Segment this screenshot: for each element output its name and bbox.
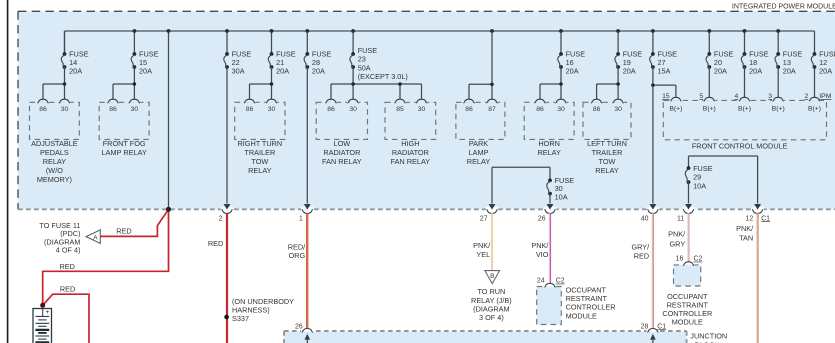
svg-text:12: 12 xyxy=(746,215,754,222)
svg-text:PEDALS: PEDALS xyxy=(40,148,69,157)
svg-text:RELAY: RELAY xyxy=(248,166,272,175)
svg-text:30: 30 xyxy=(614,106,622,113)
wire relay output bracket to pin 27 xyxy=(489,167,550,209)
junction block pin 26 xyxy=(295,323,314,343)
svg-text:15A: 15A xyxy=(658,66,671,75)
integrated power module box xyxy=(18,11,835,209)
svg-text:3: 3 xyxy=(768,93,772,100)
fuse 19 20A xyxy=(615,50,642,76)
svg-text:TRAILER: TRAILER xyxy=(244,148,275,157)
wire fuse 28 to IPM pin 1 xyxy=(304,67,311,210)
svg-text:FUSE: FUSE xyxy=(693,164,713,173)
svg-text:16: 16 xyxy=(676,256,684,263)
svg-text:RED: RED xyxy=(634,251,649,260)
bus junction dots xyxy=(133,29,781,33)
connector cups at IPM border xyxy=(221,210,763,214)
label RED pin2 xyxy=(208,239,223,248)
svg-text:ORG: ORG xyxy=(289,251,306,260)
svg-text:PNK/: PNK/ xyxy=(668,229,686,238)
svg-text:B(+): B(+) xyxy=(703,106,716,113)
fuse 15 20A xyxy=(131,50,158,76)
svg-text:29: 29 xyxy=(693,173,701,182)
label to run relay xyxy=(471,287,512,322)
label PNK/YEL xyxy=(473,241,491,259)
svg-text:30: 30 xyxy=(557,106,565,113)
arrows at border pins xyxy=(224,204,761,210)
svg-text:11: 11 xyxy=(677,215,684,222)
svg-text:30: 30 xyxy=(61,106,69,113)
svg-text:26: 26 xyxy=(295,323,303,330)
svg-text:10A: 10A xyxy=(555,192,568,201)
fuse 20 20A xyxy=(706,50,733,76)
svg-text:20A: 20A xyxy=(819,66,832,75)
svg-text:C1: C1 xyxy=(657,323,666,330)
label GRY/RED xyxy=(631,243,650,261)
svg-text:B(+): B(+) xyxy=(738,106,751,113)
svg-text:MODULE: MODULE xyxy=(566,311,597,320)
svg-text:MEMORY): MEMORY) xyxy=(37,175,72,184)
fuse 21 20A xyxy=(268,50,295,76)
svg-text:B(+): B(+) xyxy=(808,106,821,113)
svg-text:26: 26 xyxy=(538,215,546,222)
wire PNK/YEL pin 27 to connector B xyxy=(491,213,493,270)
svg-text:HORN: HORN xyxy=(538,139,560,148)
junction block pin 28 xyxy=(641,323,667,343)
svg-text:GRY: GRY xyxy=(670,239,686,248)
svg-text:TRAILER: TRAILER xyxy=(592,148,623,157)
svg-text:RED: RED xyxy=(208,239,223,248)
splice S337 xyxy=(224,297,294,323)
wire fuse 22 to IPM pin 2 xyxy=(224,67,231,210)
svg-text:HIGH: HIGH xyxy=(401,139,419,148)
fuse 22 30A xyxy=(224,50,251,76)
wire PNK/VIO pin 26 to ORC xyxy=(549,213,551,283)
svg-text:B(+): B(+) xyxy=(772,106,785,113)
svg-text:3 OF 4): 3 OF 4) xyxy=(479,313,504,322)
wires fuses 20 18 13 12 to FCM xyxy=(709,67,814,97)
wire FCM outputs bracket xyxy=(689,156,761,210)
fuse 29 10A xyxy=(685,164,712,191)
front control module xyxy=(662,93,832,150)
svg-text:INTEGRATED POWER MODULE: INTEGRATED POWER MODULE xyxy=(732,3,835,10)
relay K8 left turn trailer tow (fed by fuse 19) xyxy=(583,67,631,175)
svg-text:40: 40 xyxy=(641,215,649,222)
label RED to battery xyxy=(60,262,75,271)
svg-text:IPM: IPM xyxy=(819,93,831,100)
svg-text:TOW: TOW xyxy=(251,157,268,166)
svg-text:87: 87 xyxy=(488,106,496,113)
connector B to run relay xyxy=(485,271,500,284)
svg-text:RELAY: RELAY xyxy=(43,157,67,166)
svg-text:20A: 20A xyxy=(783,66,796,75)
svg-text:LOW: LOW xyxy=(334,139,351,148)
svg-text:86: 86 xyxy=(39,106,47,113)
fuse 16 20A xyxy=(558,50,585,76)
integrated power module title xyxy=(732,3,835,10)
wire RED battery to bottom xyxy=(43,294,89,343)
svg-text:RIGHT TURN: RIGHT TURN xyxy=(237,139,282,148)
wire PNK/TAN pin 12 to bottom xyxy=(757,213,759,343)
wire fuse 23 bracket to radiator fan relays xyxy=(331,67,422,99)
fuse 28 20A xyxy=(304,50,331,76)
fuse 18 20A xyxy=(741,50,768,76)
svg-text:20A: 20A xyxy=(566,66,579,75)
label RED/ORG xyxy=(288,242,306,260)
wire bus to park lamp relay xyxy=(469,31,494,99)
svg-text:LAMP RELAY: LAMP RELAY xyxy=(102,148,147,157)
relay K4 low radiator fan (fed by fuse 23) xyxy=(316,99,367,166)
svg-text:PARK: PARK xyxy=(469,139,488,148)
svg-text:RED: RED xyxy=(116,226,131,235)
svg-text:C1: C1 xyxy=(761,215,770,222)
white gaps at border connectors xyxy=(221,207,764,212)
label PNK/TAN xyxy=(736,224,754,243)
svg-text:MODULE: MODULE xyxy=(672,317,703,326)
relay K3 right turn trailer tow (fed by fuse 21) xyxy=(235,67,285,175)
svg-text:30: 30 xyxy=(349,106,357,113)
svg-text:4: 4 xyxy=(735,93,739,100)
fuse 27 15A xyxy=(650,50,677,76)
svg-text:2: 2 xyxy=(805,93,809,100)
svg-text:30: 30 xyxy=(268,106,276,113)
fuse 23 50A (EXCEPT 3.0L) xyxy=(350,46,408,81)
svg-text:RELAY: RELAY xyxy=(595,166,619,175)
bus wire B+ xyxy=(65,30,815,32)
svg-text:RED: RED xyxy=(60,262,75,271)
svg-text:FAN RELAY: FAN RELAY xyxy=(322,157,362,166)
svg-text:PNK/: PNK/ xyxy=(531,241,549,250)
svg-text:(W/O: (W/O xyxy=(46,166,63,175)
svg-text:+: + xyxy=(45,309,49,316)
wire PNK/GRY pin 11 to ORC xyxy=(687,213,689,262)
wire RED/ORG pin 1 to junction block xyxy=(306,213,308,329)
svg-text:86: 86 xyxy=(109,106,117,113)
svg-text:B(+): B(+) xyxy=(669,106,682,113)
svg-text:ADJUSTABLE: ADJUSTABLE xyxy=(31,139,78,148)
wire RED node to battery xyxy=(43,209,169,305)
svg-text:B: B xyxy=(490,273,494,280)
svg-text:VIO: VIO xyxy=(536,250,549,259)
svg-text:(EXCEPT 3.0L): (EXCEPT 3.0L) xyxy=(358,72,408,81)
relay K1 adjustable pedals (fed by fuse 14) xyxy=(30,67,80,184)
svg-text:85: 85 xyxy=(396,106,404,113)
svg-text:TAN: TAN xyxy=(739,233,753,242)
svg-text:10A: 10A xyxy=(693,182,706,191)
svg-text:RELAY: RELAY xyxy=(537,148,561,157)
svg-text:PNK/: PNK/ xyxy=(736,224,754,233)
svg-text:FRONT FOG: FRONT FOG xyxy=(103,139,146,148)
fuse 14 20A xyxy=(61,50,88,76)
svg-text:RADIATOR: RADIATOR xyxy=(392,148,429,157)
node battery junction xyxy=(40,207,171,308)
label to fuse 11 xyxy=(39,221,80,255)
fuse 12 20A xyxy=(811,50,835,76)
wire fuse 29 to IPM pin 11 xyxy=(685,182,692,210)
svg-text:30A: 30A xyxy=(232,66,245,75)
wire RED node to connector A xyxy=(100,209,168,236)
label PNK/VIO xyxy=(531,241,549,259)
IPM pin numbers xyxy=(219,215,770,222)
svg-text:86: 86 xyxy=(536,106,544,113)
svg-text:28: 28 xyxy=(641,323,649,330)
battery xyxy=(33,309,52,343)
svg-text:5: 5 xyxy=(699,93,703,100)
wire RED pin 2 to S337 and below xyxy=(226,213,228,343)
fuse 13 20A xyxy=(775,50,802,76)
junction block box xyxy=(284,331,687,343)
page left border xyxy=(7,0,9,343)
svg-text:C2: C2 xyxy=(556,278,565,285)
svg-text:15: 15 xyxy=(662,93,670,100)
svg-text:20A: 20A xyxy=(623,66,636,75)
occupant restraint controller module (pin 24 C2) xyxy=(537,278,616,325)
svg-text:86: 86 xyxy=(246,106,254,113)
relay K6 park lamp (fed from bus) xyxy=(456,99,505,166)
svg-text:C2: C2 xyxy=(694,256,703,263)
fuse 30 10A xyxy=(547,176,574,201)
svg-text:A: A xyxy=(93,235,98,242)
svg-text:FAN RELAY: FAN RELAY xyxy=(391,157,431,166)
svg-text:JUNCTION: JUNCTION xyxy=(690,332,727,341)
svg-text:27: 27 xyxy=(480,215,488,222)
svg-text:20A: 20A xyxy=(139,66,152,75)
svg-text:FRONT CONTROL MODULE: FRONT CONTROL MODULE xyxy=(692,141,788,150)
svg-text:30: 30 xyxy=(418,106,426,113)
svg-text:YEL: YEL xyxy=(476,250,490,259)
relay K5 high radiator fan (fed by fuse 23) xyxy=(385,99,436,166)
wire fuse 30 to IPM pin 26 xyxy=(547,194,554,210)
svg-text:20A: 20A xyxy=(749,66,762,75)
svg-text:1: 1 xyxy=(299,215,303,222)
svg-text:RADIATOR: RADIATOR xyxy=(323,148,360,157)
svg-text:RED/: RED/ xyxy=(288,242,306,251)
wire bus to battery junction node xyxy=(168,31,170,209)
svg-text:86: 86 xyxy=(465,106,473,113)
label RED bottom xyxy=(60,285,75,294)
svg-text:4 OF 4): 4 OF 4) xyxy=(56,246,81,255)
svg-text:LAMP: LAMP xyxy=(469,148,489,157)
occupant restraint controller module (pin 16 C2) xyxy=(662,256,712,327)
svg-text:86: 86 xyxy=(327,106,335,113)
relay K2 front fog lamp (fed by fuse 15) xyxy=(99,67,149,157)
svg-text:86: 86 xyxy=(593,106,601,113)
svg-text:24: 24 xyxy=(537,278,545,285)
wire bus to fuses xyxy=(65,31,815,54)
svg-text:20A: 20A xyxy=(276,66,289,75)
wire fuse 27 to FCM pin 15 and IPM pin 40 xyxy=(650,67,676,210)
svg-text:LEFT TURN: LEFT TURN xyxy=(587,139,627,148)
svg-text:RED: RED xyxy=(60,285,75,294)
svg-text:30: 30 xyxy=(131,106,139,113)
svg-text:RELAY: RELAY xyxy=(467,157,491,166)
junction block label xyxy=(690,332,727,343)
label PNK/GRY xyxy=(668,229,686,248)
wire GRY/RED pin 40 to junction block xyxy=(652,213,654,329)
svg-text:20A: 20A xyxy=(312,66,325,75)
svg-text:20A: 20A xyxy=(69,66,82,75)
svg-text:S337: S337 xyxy=(232,314,249,323)
svg-text:2: 2 xyxy=(219,215,223,222)
connector A to fuse 11 xyxy=(86,230,100,244)
svg-text:TOW: TOW xyxy=(599,157,616,166)
label RED to A xyxy=(116,226,131,235)
svg-text:PNK/: PNK/ xyxy=(473,241,491,250)
relay K7 horn (fed by fuse 16) xyxy=(524,67,574,157)
svg-text:GRY/: GRY/ xyxy=(631,243,650,252)
svg-text:20A: 20A xyxy=(714,66,727,75)
